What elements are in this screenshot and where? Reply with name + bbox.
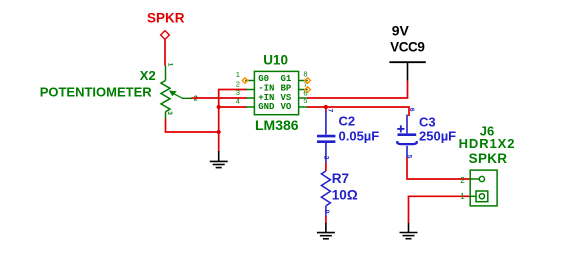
svg-text:2: 2: [323, 156, 330, 160]
wire VCC9 to U10 pin6: [307, 81, 408, 98]
svg-text:X2: X2: [140, 68, 156, 83]
wire pot wiper to U10 pin3: [191, 97, 247, 99]
svg-text:5: 5: [303, 96, 307, 105]
svg-text:VCC9: VCC9: [390, 39, 424, 54]
wire C3 to J6 pin2: [407, 158, 470, 180]
svg-text:1: 1: [166, 63, 173, 67]
wire C2 to R7: [325, 163, 327, 172]
no-connect diamond pin1: [242, 78, 248, 84]
ground under pot: [210, 151, 228, 168]
op-amp U10 body: [254, 71, 298, 114]
svg-text:4: 4: [236, 97, 240, 106]
wire SPKR to pot top: [164, 40, 166, 66]
svg-text:2: 2: [460, 176, 465, 185]
potentiometer X2 body: [161, 66, 170, 119]
no-connect diamond pin7: [305, 87, 311, 93]
svg-text:2: 2: [194, 96, 198, 103]
wire U10 pin2: [218, 89, 247, 91]
junction VO to C2: [324, 105, 328, 109]
U10 pin numbers right: [303, 69, 307, 104]
svg-text:1: 1: [460, 192, 465, 201]
wire VO junction to C2: [325, 107, 327, 112]
svg-text:POTENTIOMETER: POTENTIOMETER: [40, 84, 153, 99]
svg-text:SPKR: SPKR: [469, 151, 508, 166]
wire vertical net pin2/pin4/ground: [218, 90, 220, 152]
junction pot bottom net: [217, 130, 221, 134]
ground under J6: [400, 223, 418, 239]
svg-text:HDR1X2: HDR1X2: [459, 136, 516, 151]
capacitor C2 body: [317, 111, 335, 163]
no-connect diamond pin8: [305, 78, 311, 84]
svg-text:C3: C3: [419, 115, 436, 130]
connector SPKR diamond: [161, 31, 170, 40]
potentiometer wiper arrow: [169, 90, 192, 98]
svg-text:0.05µF: 0.05µF: [339, 128, 380, 143]
svg-text:U10: U10: [263, 53, 288, 68]
wire U10 pin5 VO output: [307, 107, 409, 116]
U10 pin numbers left: [236, 70, 240, 106]
op-amp U10 pin names: [258, 74, 292, 112]
svg-text:7: 7: [327, 109, 334, 113]
svg-text:250µF: 250µF: [419, 129, 456, 144]
junction pin4 net: [217, 105, 221, 109]
svg-text:LM386: LM386: [255, 117, 299, 133]
svg-text:SPKR: SPKR: [147, 11, 185, 26]
power rail VCC9 bar: [389, 61, 425, 63]
connector J6 body: [470, 170, 497, 206]
capacitor C3 polarity plus: [397, 125, 404, 132]
capacitor C3 body polarized: [397, 115, 416, 158]
svg-text:6: 6: [408, 108, 415, 112]
svg-text:C2: C2: [339, 113, 356, 128]
wire pot bottom down: [165, 119, 167, 133]
wire ground to J6 pin1: [409, 196, 471, 223]
wire U10 pin4: [219, 106, 247, 108]
svg-text:R7: R7: [332, 171, 349, 186]
svg-text:3: 3: [166, 111, 173, 115]
svg-text:VO: VO: [281, 102, 292, 112]
wire R7 to ground: [325, 216, 327, 223]
U10 pin stubs: [245, 81, 308, 108]
power rail stem: [407, 62, 409, 81]
svg-text:10Ω: 10Ω: [332, 187, 358, 202]
svg-text:8: 8: [303, 69, 307, 78]
wire pot bottom to ground node: [165, 131, 219, 133]
svg-text:GND: GND: [258, 102, 275, 112]
resistor R7 body: [321, 171, 330, 216]
svg-text:9V: 9V: [392, 23, 410, 39]
ground under R7: [317, 223, 335, 239]
svg-text:0: 0: [323, 210, 330, 214]
svg-text:1: 1: [236, 70, 240, 79]
